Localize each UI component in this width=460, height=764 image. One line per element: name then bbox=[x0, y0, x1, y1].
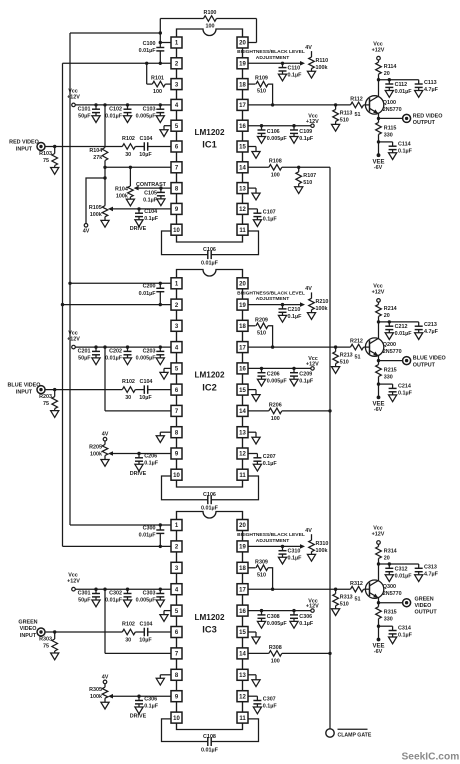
pin 10 IC3 bbox=[171, 712, 182, 723]
svg-text:0.1µF: 0.1µF bbox=[299, 621, 314, 627]
svg-text:-6V: -6V bbox=[374, 165, 383, 171]
svg-text:0.01µF: 0.01µF bbox=[139, 291, 157, 297]
svg-text:0.01µF: 0.01µF bbox=[395, 331, 413, 337]
resistor R209 510 pin18 bbox=[248, 325, 256, 327]
pin 17 IC1 bbox=[237, 99, 248, 110]
svg-text:C112: C112 bbox=[395, 82, 408, 88]
resistor R315 330 emitter bbox=[378, 603, 380, 607]
svg-text:R110: R110 bbox=[316, 58, 329, 64]
svg-text:0.1µF: 0.1µF bbox=[398, 148, 413, 154]
resistor R103 75 termination bbox=[53, 145, 56, 148]
pin 4 IC3 bbox=[171, 584, 182, 595]
svg-text:R104: R104 bbox=[115, 187, 128, 193]
capacitor C102 0.01uF bbox=[126, 103, 129, 106]
svg-text:330: 330 bbox=[384, 132, 393, 138]
wire pin 7 line bbox=[105, 410, 171, 412]
svg-text:51: 51 bbox=[355, 112, 361, 118]
pin 7 IC3 bbox=[171, 648, 182, 659]
svg-text:330: 330 bbox=[384, 375, 393, 381]
pin 9 IC2 bbox=[171, 448, 182, 459]
capacitor C201 50uF bbox=[94, 345, 97, 348]
svg-text:100k: 100k bbox=[316, 548, 328, 554]
capacitor C110 0.1uF bbox=[281, 62, 284, 65]
svg-text:0.01µF: 0.01µF bbox=[105, 598, 123, 604]
svg-text:0.1µF: 0.1µF bbox=[263, 461, 278, 467]
svg-text:DRIVE: DRIVE bbox=[130, 471, 147, 477]
pin 17 IC2 bbox=[237, 342, 248, 353]
svg-text:0.005µF: 0.005µF bbox=[267, 621, 288, 627]
svg-text:R203: R203 bbox=[39, 394, 52, 400]
capacitor C105 0.1uF contrast bbox=[159, 186, 162, 189]
svg-text:0.005µF: 0.005µF bbox=[267, 136, 288, 142]
ground pin 15 bbox=[248, 631, 256, 633]
capacitor C103 0.005uF bbox=[159, 103, 162, 106]
svg-text:OUTPUT: OUTPUT bbox=[413, 120, 436, 126]
ground pin 13 bbox=[248, 187, 256, 189]
wire input line bbox=[45, 146, 122, 148]
svg-text:19: 19 bbox=[239, 303, 246, 309]
power Vcc +12V pin16 bbox=[311, 367, 314, 370]
wire bbox=[135, 389, 144, 391]
resistor R109 510 pin18 bbox=[248, 83, 256, 85]
transistor Q100 2N5770 bbox=[365, 96, 383, 114]
svg-text:R309: R309 bbox=[255, 559, 268, 565]
svg-text:+12V: +12V bbox=[67, 579, 80, 585]
svg-text:10µF: 10µF bbox=[139, 637, 152, 643]
pin 15 IC3 bbox=[237, 627, 248, 638]
wire Vcc to pin 7 bbox=[103, 345, 106, 348]
pin 1 IC2 bbox=[171, 278, 182, 289]
svg-text:C109: C109 bbox=[299, 129, 312, 135]
svg-text:C105: C105 bbox=[144, 191, 157, 197]
wire pin 17 line bbox=[248, 104, 351, 106]
wire input line bbox=[45, 631, 122, 633]
svg-text:0.1µF: 0.1µF bbox=[288, 314, 303, 320]
svg-text:0.005µF: 0.005µF bbox=[136, 356, 157, 362]
capacitor C301 50uF bbox=[94, 588, 97, 591]
capacitor C104 0.1uF drive bbox=[137, 207, 140, 210]
pin 4 IC1 bbox=[171, 99, 182, 110]
resistor R214 20 bbox=[378, 302, 380, 304]
svg-text:C212: C212 bbox=[395, 324, 408, 330]
pin 11 IC3 bbox=[237, 712, 248, 723]
pin 20 IC2 bbox=[237, 278, 248, 289]
svg-text:VIDEO: VIDEO bbox=[20, 626, 37, 632]
svg-text:0.01µF: 0.01µF bbox=[395, 89, 413, 95]
svg-text:2N5770: 2N5770 bbox=[383, 591, 402, 597]
svg-text:0.01µF: 0.01µF bbox=[139, 48, 157, 54]
svg-text:75: 75 bbox=[43, 644, 49, 650]
svg-text:R213: R213 bbox=[340, 353, 353, 359]
pin 2 IC2 bbox=[171, 299, 182, 310]
svg-text:R209: R209 bbox=[255, 317, 268, 323]
pin 3 IC3 bbox=[171, 562, 182, 573]
capacitor C300 0.01uF pin1-pin2 bbox=[159, 525, 161, 530]
svg-text:0.1µF: 0.1µF bbox=[144, 703, 159, 709]
svg-text:17: 17 bbox=[239, 103, 246, 109]
power VEE -6V bbox=[378, 626, 380, 638]
wire input line bbox=[45, 389, 122, 391]
power Vcc +12V pin16 bbox=[311, 124, 314, 127]
power VEE -6V bbox=[378, 142, 380, 154]
svg-text:R308: R308 bbox=[269, 645, 282, 651]
svg-text:75: 75 bbox=[43, 158, 49, 164]
pin 13 IC1 bbox=[237, 183, 248, 194]
wire pin 17 line bbox=[248, 588, 351, 590]
svg-text:18: 18 bbox=[239, 324, 246, 330]
capacitor C210 0.1uF bbox=[281, 303, 284, 306]
wire bus A (pin 1 distribution) bbox=[69, 33, 71, 525]
svg-text:LM1202: LM1202 bbox=[194, 613, 224, 622]
svg-text:100k: 100k bbox=[316, 65, 328, 71]
wire drive wiper pin 9 bbox=[113, 453, 171, 455]
pin 3 IC1 bbox=[171, 79, 182, 90]
svg-text:R109: R109 bbox=[255, 76, 268, 82]
svg-text:OUTPUT: OUTPUT bbox=[413, 362, 436, 368]
resistor R212 51 base bbox=[351, 344, 364, 350]
svg-text:0.1µF: 0.1µF bbox=[263, 216, 278, 222]
svg-text:13: 13 bbox=[239, 673, 246, 679]
resistor R108 100 pin14 bbox=[248, 166, 269, 168]
svg-text:R115: R115 bbox=[384, 125, 397, 131]
svg-text:ADJUSTMENT: ADJUSTMENT bbox=[256, 538, 289, 544]
svg-text:OUTPUT: OUTPUT bbox=[415, 609, 438, 615]
pin 1 IC1 bbox=[171, 37, 182, 48]
pin 5 IC2 bbox=[171, 363, 182, 374]
pin 2 IC3 bbox=[171, 541, 182, 552]
svg-text:R114: R114 bbox=[384, 64, 397, 70]
wire pin 19 brightness bbox=[248, 545, 301, 547]
svg-text:C200: C200 bbox=[143, 284, 156, 290]
svg-text:C301: C301 bbox=[78, 591, 91, 597]
resistor R215 330 emitter bbox=[378, 361, 380, 365]
ground pin 8 bbox=[160, 431, 171, 433]
svg-text:C300: C300 bbox=[143, 525, 156, 531]
capacitor C106 0.005uF bbox=[260, 124, 263, 127]
pin 20 IC1 bbox=[237, 37, 248, 48]
resistor R308 100 pin14 bbox=[248, 652, 269, 654]
wire pin 2 line bbox=[63, 545, 172, 547]
svg-text:GREEN: GREEN bbox=[415, 596, 434, 602]
svg-text:15: 15 bbox=[239, 388, 246, 394]
svg-text:50µF: 50µF bbox=[78, 113, 91, 119]
svg-text:R210: R210 bbox=[316, 299, 329, 305]
svg-text:INPUT: INPUT bbox=[16, 390, 33, 396]
ground pin 15 bbox=[248, 146, 256, 148]
pin 10 IC1 bbox=[171, 224, 182, 235]
pin 12 IC3 bbox=[237, 691, 248, 702]
svg-text:11: 11 bbox=[239, 228, 246, 234]
pin 12 IC1 bbox=[237, 203, 248, 214]
power Vcc +12V pin16 bbox=[311, 609, 314, 612]
svg-text:C108: C108 bbox=[203, 734, 216, 740]
svg-text:C103: C103 bbox=[143, 106, 156, 112]
resistor R101 100 pin3 bbox=[146, 63, 148, 84]
op-amp U3 LM1202 IC3 body bbox=[177, 512, 243, 730]
pin 1 IC3 bbox=[171, 520, 182, 531]
svg-text:R104: R104 bbox=[89, 148, 102, 154]
capacitor C306 0.1uF bbox=[292, 609, 295, 612]
pin 11 IC1 bbox=[237, 224, 248, 235]
svg-text:16: 16 bbox=[239, 367, 246, 373]
svg-text:20: 20 bbox=[384, 313, 390, 319]
capacitor C213 4.7uF bbox=[418, 322, 420, 326]
svg-text:0.1µF: 0.1µF bbox=[263, 704, 278, 710]
ground pin 5 bbox=[164, 610, 171, 612]
wire drive wiper pin 9 bbox=[113, 208, 171, 210]
svg-text:0.01µF: 0.01µF bbox=[395, 573, 413, 579]
potentiometer R305 100k DRIVE bbox=[102, 687, 108, 698]
pin 14 IC2 bbox=[237, 405, 248, 416]
svg-text:C314: C314 bbox=[398, 626, 411, 632]
svg-text:CLAMP GATE: CLAMP GATE bbox=[338, 732, 372, 738]
svg-text:R101: R101 bbox=[151, 76, 164, 82]
svg-text:100k: 100k bbox=[90, 694, 102, 700]
capacitor C114 0.1uF emitter bbox=[377, 140, 380, 143]
wire pin 19 brightness bbox=[248, 62, 301, 64]
pin 6 IC3 bbox=[171, 627, 182, 638]
wire Vcc rail to pin 4 bbox=[75, 588, 171, 590]
pin 6 IC2 bbox=[171, 384, 182, 395]
svg-text:R102: R102 bbox=[122, 379, 135, 385]
svg-text:DRIVE: DRIVE bbox=[130, 226, 147, 232]
svg-text:15: 15 bbox=[239, 630, 246, 636]
svg-text:14: 14 bbox=[239, 409, 246, 415]
svg-text:C104: C104 bbox=[140, 136, 153, 142]
pin 16 IC1 bbox=[237, 120, 248, 131]
ground pin 13 bbox=[248, 431, 256, 433]
connector RED VIDEO OUTPUT bbox=[377, 117, 380, 120]
svg-text:2N5770: 2N5770 bbox=[383, 349, 402, 355]
pin 13 IC3 bbox=[237, 669, 248, 680]
wire pin 2 line bbox=[63, 304, 172, 306]
pin 8 IC3 bbox=[171, 669, 182, 680]
resistor R303 75 termination bbox=[53, 630, 56, 633]
wire pin 2 line bbox=[63, 62, 172, 64]
svg-text:C107: C107 bbox=[263, 209, 276, 215]
svg-text:C302: C302 bbox=[109, 591, 122, 597]
svg-text:10: 10 bbox=[173, 228, 180, 234]
svg-text:C106: C106 bbox=[203, 247, 216, 253]
svg-text:R107: R107 bbox=[303, 173, 316, 179]
svg-text:R206: R206 bbox=[269, 402, 282, 408]
svg-text:+12V: +12V bbox=[372, 47, 385, 53]
svg-text:R313: R313 bbox=[340, 595, 353, 601]
connector RED VIDEO INPUT bbox=[37, 143, 45, 151]
svg-text:IC2: IC2 bbox=[202, 382, 216, 392]
resistor R213 510 bbox=[334, 345, 337, 348]
power Vcc +12V terminal of IC1 bbox=[72, 103, 76, 107]
capacitor C113 4.7uF bbox=[418, 80, 420, 84]
pin 10 IC2 bbox=[171, 469, 182, 480]
svg-text:13: 13 bbox=[239, 186, 246, 192]
svg-text:0.1µF: 0.1µF bbox=[288, 556, 303, 562]
capacitor C313 4.7uF bbox=[418, 564, 420, 568]
connector BLUE VIDEO INPUT bbox=[37, 386, 45, 394]
capacitor C203 0.005uF bbox=[159, 345, 162, 348]
wire pin 17 line bbox=[248, 346, 351, 348]
svg-text:510: 510 bbox=[340, 117, 349, 123]
svg-text:13: 13 bbox=[239, 430, 246, 436]
svg-text:C214: C214 bbox=[398, 384, 411, 390]
pin 4 IC2 bbox=[171, 342, 182, 353]
svg-text:20: 20 bbox=[239, 282, 246, 288]
svg-text:12: 12 bbox=[239, 452, 246, 458]
svg-text:20: 20 bbox=[239, 523, 246, 529]
pin 14 IC3 bbox=[237, 648, 248, 659]
capacitor C101 50uF bbox=[94, 103, 97, 106]
svg-text:R103: R103 bbox=[39, 151, 52, 157]
svg-text:R310: R310 bbox=[316, 541, 329, 547]
pin 12 IC2 bbox=[237, 448, 248, 459]
svg-text:4V: 4V bbox=[83, 228, 90, 234]
svg-text:C308: C308 bbox=[267, 614, 280, 620]
wire collector node bbox=[377, 78, 380, 81]
svg-text:2N5770: 2N5770 bbox=[383, 107, 402, 113]
svg-text:10: 10 bbox=[173, 716, 180, 722]
resistor R113 510 bbox=[334, 103, 337, 106]
pin 8 IC2 bbox=[171, 427, 182, 438]
svg-text:R212: R212 bbox=[350, 339, 363, 345]
potentiometer R310 100k brightness bbox=[311, 534, 313, 540]
svg-text:20: 20 bbox=[384, 555, 390, 561]
svg-text:18: 18 bbox=[239, 82, 246, 88]
svg-text:C306: C306 bbox=[144, 696, 157, 702]
svg-text:C201: C201 bbox=[78, 349, 91, 355]
resistor R309 510 pin18 bbox=[248, 567, 256, 569]
capacitor C106 0.01uF pin10-pin11 loop bbox=[162, 476, 208, 500]
wire pin7 to drive pot bbox=[104, 167, 106, 205]
svg-text:R303: R303 bbox=[39, 637, 52, 643]
terminal 4V bbox=[84, 224, 88, 228]
svg-text:ADJUSTMENT: ADJUSTMENT bbox=[256, 296, 289, 302]
resistor R203 75 termination bbox=[53, 388, 56, 391]
svg-text:4V: 4V bbox=[305, 286, 312, 292]
svg-text:+12V: +12V bbox=[67, 337, 80, 343]
pin 7 IC2 bbox=[171, 405, 182, 416]
svg-text:+12V: +12V bbox=[306, 604, 319, 610]
svg-text:C206: C206 bbox=[267, 372, 280, 378]
svg-text:4.7µF: 4.7µF bbox=[424, 329, 439, 335]
pin 19 IC1 bbox=[237, 58, 248, 69]
resistor R107 510 bbox=[297, 166, 300, 169]
svg-text:4V: 4V bbox=[102, 674, 109, 680]
resistor R314 20 bbox=[378, 544, 380, 546]
pin 18 IC3 bbox=[237, 562, 248, 573]
transistor Q300 2N5770 bbox=[365, 580, 383, 598]
svg-text:R315: R315 bbox=[384, 610, 397, 616]
svg-text:100: 100 bbox=[271, 173, 280, 179]
svg-text:10: 10 bbox=[173, 473, 180, 479]
power Vcc +12V terminal of IC2 bbox=[72, 345, 76, 349]
pin 18 IC1 bbox=[237, 79, 248, 90]
svg-text:R112: R112 bbox=[350, 97, 363, 103]
wire to pin 6 bbox=[148, 146, 171, 148]
svg-text:+12V: +12V bbox=[372, 532, 385, 538]
svg-text:C303: C303 bbox=[143, 591, 156, 597]
svg-text:11: 11 bbox=[239, 473, 246, 479]
pin 16 IC2 bbox=[237, 363, 248, 374]
svg-text:15: 15 bbox=[239, 145, 246, 151]
wire bus A to pin 1 of IC3 bbox=[70, 524, 171, 526]
wire bus A to C100 node bbox=[70, 32, 160, 34]
ground pin 5 bbox=[164, 125, 171, 127]
svg-text:R205: R205 bbox=[89, 444, 102, 450]
wire to pin 6 bbox=[148, 389, 171, 391]
svg-text:510: 510 bbox=[340, 360, 349, 366]
pin 7 IC1 bbox=[171, 162, 182, 173]
svg-text:12: 12 bbox=[239, 694, 246, 700]
svg-text:0.1µF: 0.1µF bbox=[144, 461, 159, 467]
wire bus B (pin 2 distribution) bbox=[62, 63, 64, 546]
svg-text:-6V: -6V bbox=[374, 407, 383, 413]
resistor R206 100 pin14 bbox=[248, 410, 269, 412]
capacitor C312 0.01uF bbox=[388, 562, 391, 565]
potentiometer R210 100k brightness bbox=[311, 292, 313, 298]
svg-text:30: 30 bbox=[125, 152, 131, 158]
svg-text:16: 16 bbox=[239, 124, 246, 130]
svg-text:C203: C203 bbox=[143, 349, 156, 355]
resistor R104 27k Vcc to pin7 bbox=[103, 103, 106, 106]
svg-text:+12V: +12V bbox=[306, 119, 319, 125]
pin 9 IC1 bbox=[171, 203, 182, 214]
svg-text:R312: R312 bbox=[350, 581, 363, 587]
svg-text:IC3: IC3 bbox=[202, 625, 216, 635]
svg-text:50µF: 50µF bbox=[78, 356, 91, 362]
svg-text:30: 30 bbox=[125, 395, 131, 401]
resistor R312 51 base bbox=[351, 586, 364, 592]
svg-text:+12V: +12V bbox=[372, 290, 385, 296]
wire bus A to pin 1 of IC2 bbox=[70, 282, 171, 284]
wire pin 19 brightness bbox=[248, 304, 301, 306]
wire bbox=[135, 631, 144, 633]
svg-text:C210: C210 bbox=[288, 307, 301, 313]
svg-text:510: 510 bbox=[257, 572, 266, 578]
svg-text:R214: R214 bbox=[384, 306, 397, 312]
connector CLAMP GATE bbox=[326, 729, 334, 737]
svg-text:0.005µF: 0.005µF bbox=[136, 113, 157, 119]
wire Vcc rail to pin 4 bbox=[75, 346, 171, 348]
capacitor C310 0.1uF bbox=[281, 545, 284, 548]
svg-text:R100: R100 bbox=[204, 10, 217, 16]
pin 9 IC3 bbox=[171, 691, 182, 702]
svg-text:19: 19 bbox=[239, 545, 246, 551]
capacitor C206 0.005uF bbox=[260, 367, 263, 370]
wire loop to pin 20 bbox=[256, 19, 258, 43]
svg-text:C206: C206 bbox=[144, 454, 157, 460]
svg-text:C104: C104 bbox=[140, 622, 153, 628]
svg-text:0.01µF: 0.01µF bbox=[201, 260, 219, 266]
wire collector node bbox=[377, 562, 380, 565]
wire clamp gate bus bbox=[329, 167, 331, 729]
wire pin 16 line bbox=[248, 125, 313, 127]
svg-text:4V: 4V bbox=[305, 528, 312, 534]
label CLAMP GATE bbox=[338, 728, 368, 730]
svg-text:C207: C207 bbox=[263, 454, 276, 460]
svg-text:51: 51 bbox=[355, 354, 361, 360]
svg-text:VIDEO: VIDEO bbox=[415, 603, 432, 609]
wire pin 7 line bbox=[105, 652, 171, 654]
svg-text:4.7µF: 4.7µF bbox=[424, 571, 439, 577]
svg-text:0.1µF: 0.1µF bbox=[299, 136, 314, 142]
ground pin 8 bbox=[160, 674, 171, 676]
power Vcc +12V terminal of IC3 bbox=[72, 587, 76, 591]
pin 20 IC3 bbox=[237, 520, 248, 531]
svg-text:20: 20 bbox=[239, 41, 246, 47]
capacitor C107 0.1uF pin12 bbox=[248, 208, 257, 210]
capacitor C200 0.01uF pin1-pin2 bbox=[159, 283, 161, 288]
svg-text:50µF: 50µF bbox=[78, 598, 91, 604]
